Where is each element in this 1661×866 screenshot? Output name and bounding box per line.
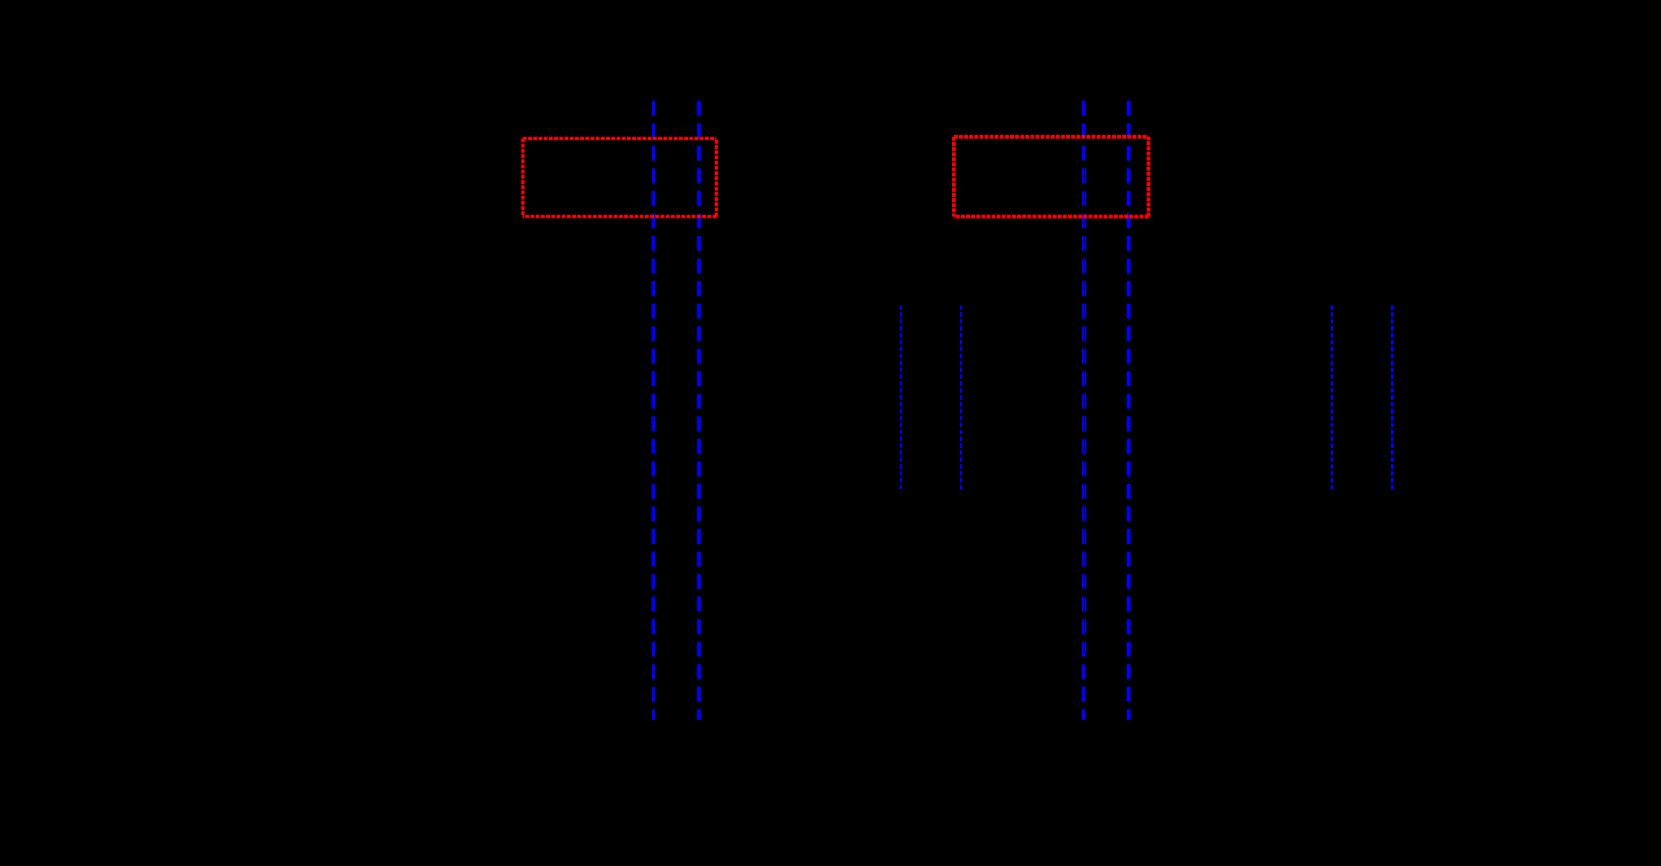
left panel thick dashed vline L1 (lower solid-thick part) [652, 650, 655, 720]
left panel thick dashed vline L1 (middle doubled part, right stroke) [653, 185, 655, 650]
left panel thin companion stroke left of L1 [651, 185, 653, 650]
short thin dashed vline S3 [1331, 305, 1333, 491]
left panel thick dashed vline L1 (upper solid-thick part) [652, 101, 655, 185]
right panel thin companion line near R1 [1085, 163, 1087, 653]
short thin dashed vline S1 [900, 305, 902, 491]
red dotted zoom-indicator rectangle B (right panel) [954, 137, 1149, 217]
right panel thick dashed vline R1 (lower solid-thick part) [1082, 653, 1086, 720]
red dotted zoom-indicator rectangle A (left panel) [523, 139, 717, 217]
short thin dashed vline S2 [960, 305, 962, 491]
right panel thick dashed vline R1 (upper solid-thick part) [1082, 101, 1086, 160]
right panel thick dashed vline R2 [1127, 101, 1131, 720]
right panel thick dashed vline R1 (middle doubled part, left stroke) [1082, 160, 1084, 653]
short thin dashed vline S4 [1391, 305, 1394, 491]
left panel thick dashed vline L2 [697, 101, 701, 720]
